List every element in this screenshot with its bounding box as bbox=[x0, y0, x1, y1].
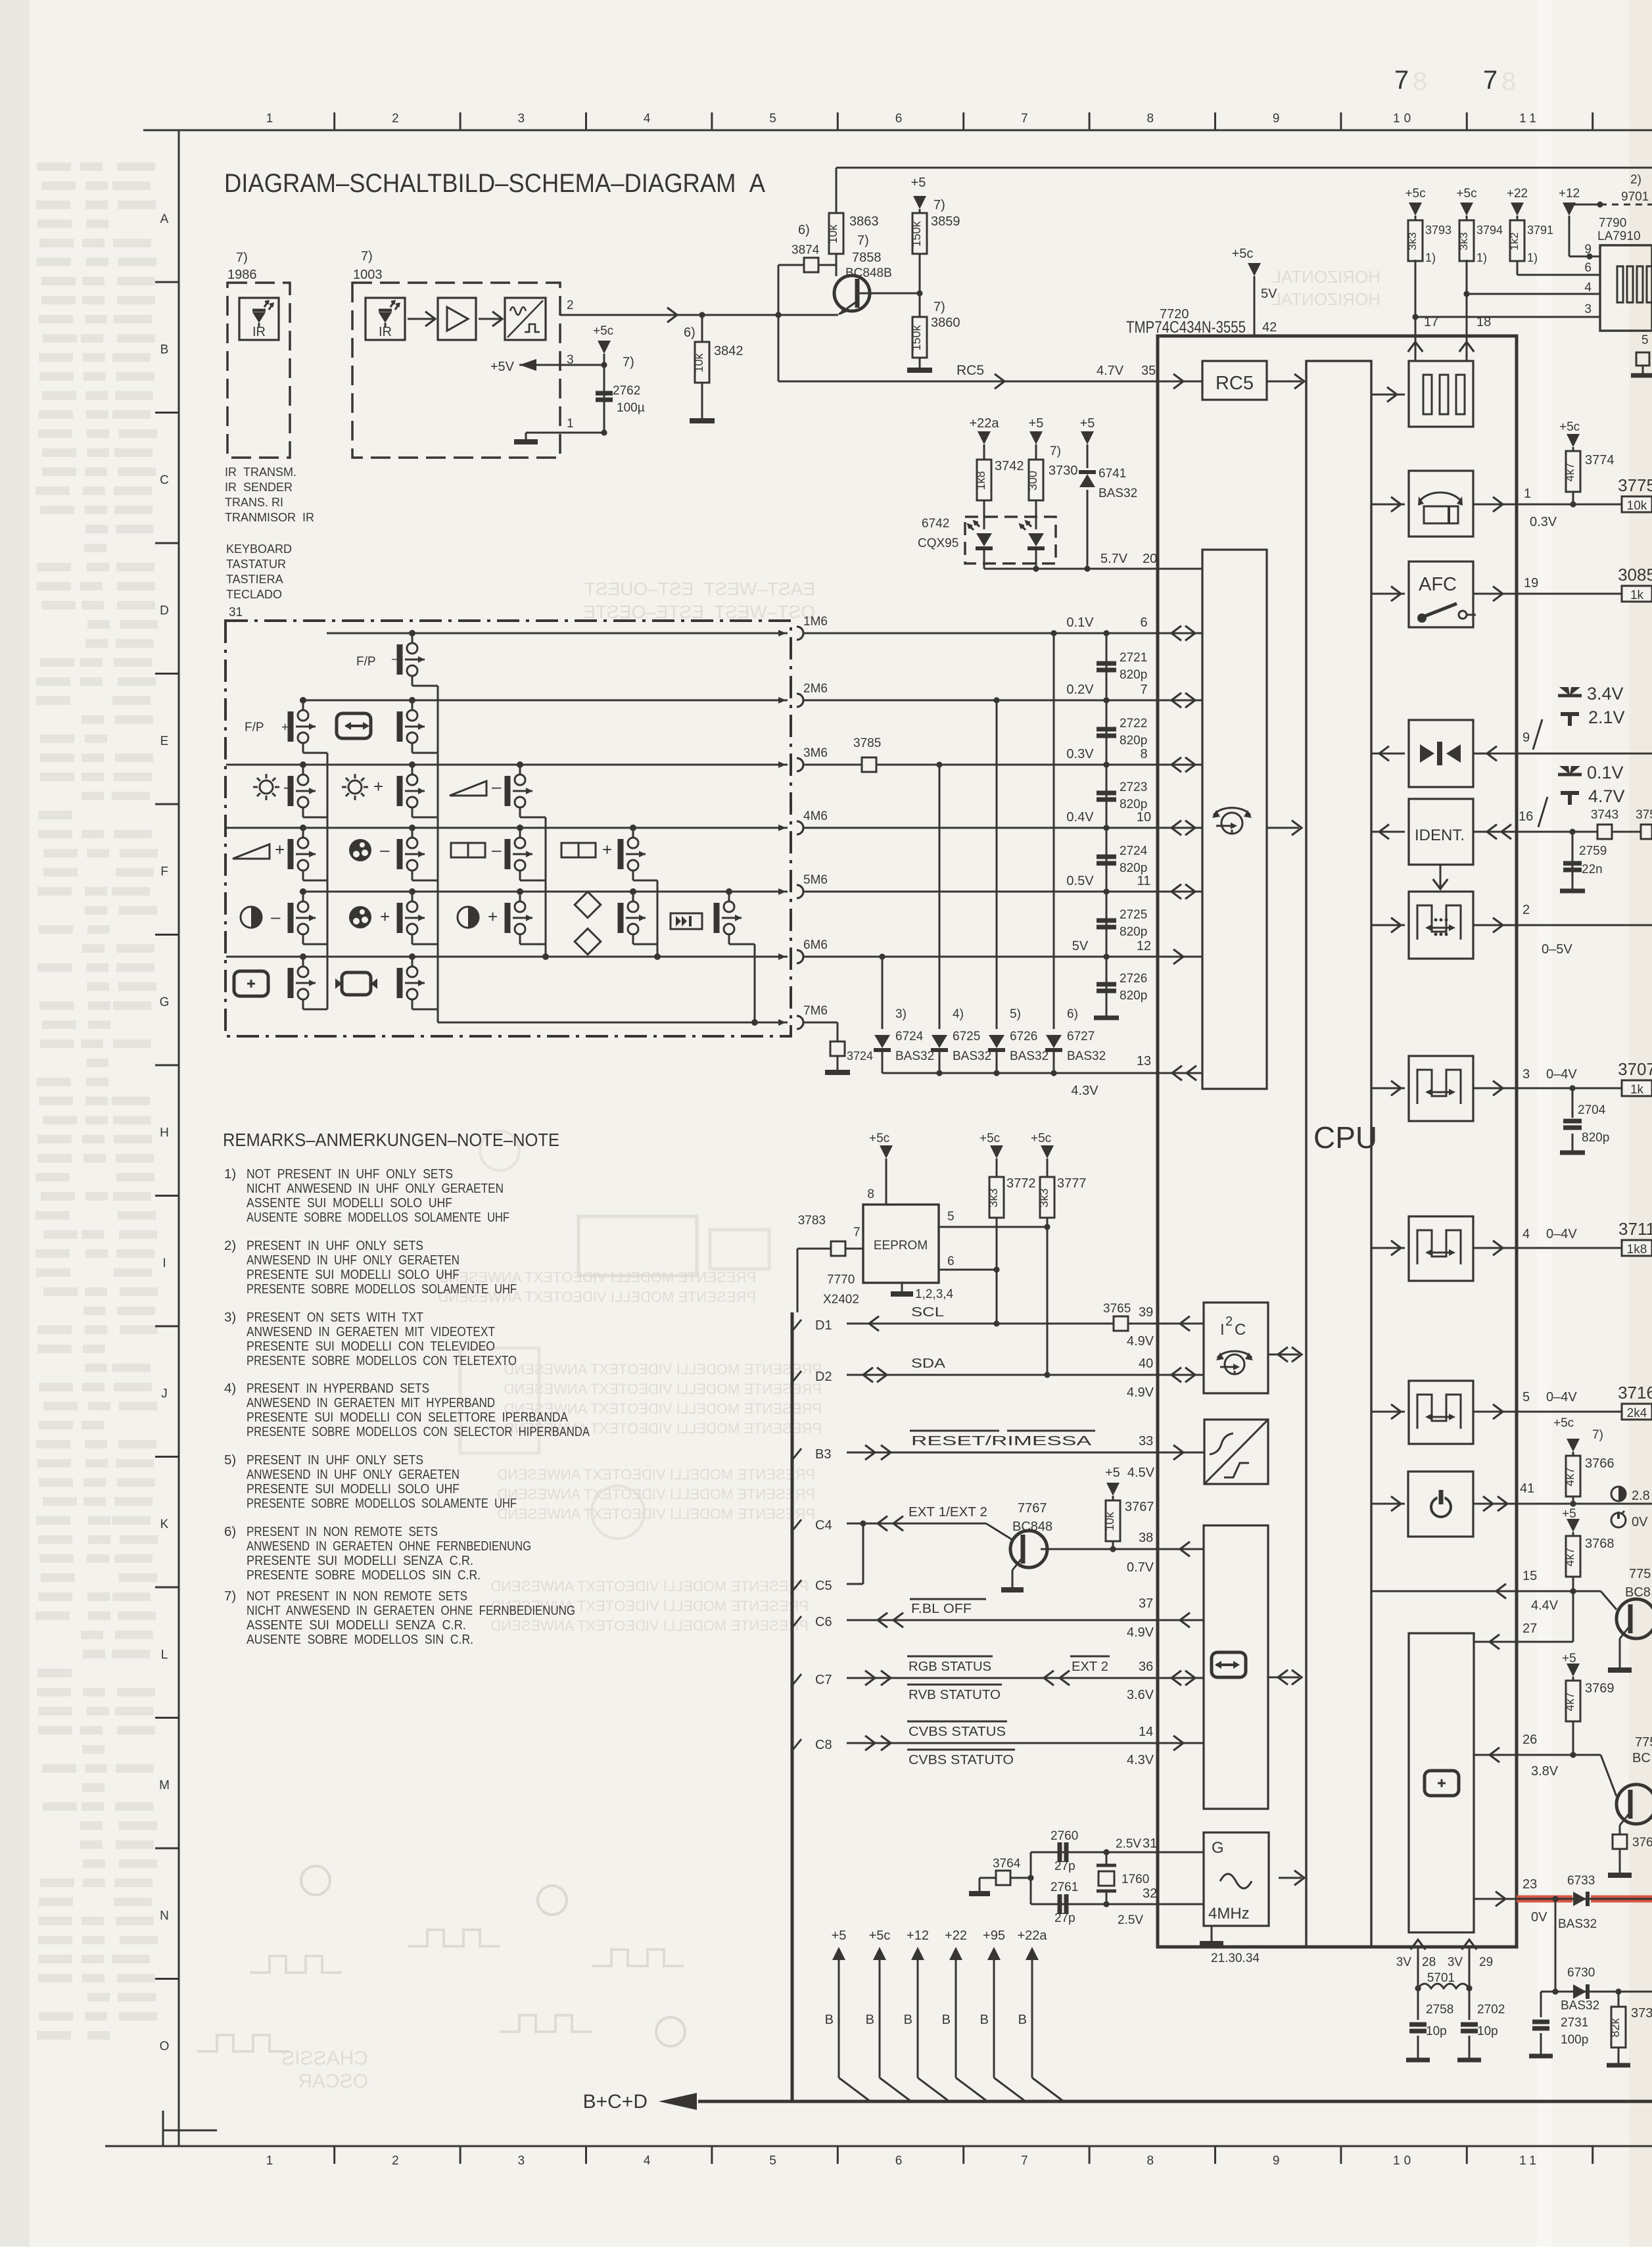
svg-text:2723: 2723 bbox=[1120, 780, 1147, 794]
svg-text:AUSENTE SOBRE MODELLOS SIN: AUSENTE SOBRE MODELLOS SIN C.R. bbox=[247, 1632, 473, 1647]
svg-text:3.8V: 3.8V bbox=[1531, 1764, 1559, 1779]
svg-text:3k3: 3k3 bbox=[1457, 232, 1470, 250]
svg-text:3: 3 bbox=[1522, 1067, 1530, 1082]
svg-text:PRESENTE MODELLI VIDEOTEXT: PRESENTE MODELLI VIDEOTEXT ANWESEND bbox=[490, 1578, 809, 1594]
svg-text:CVBS STATUTO: CVBS STATUTO bbox=[909, 1753, 1014, 1767]
svg-text:36: 36 bbox=[1139, 1660, 1153, 1674]
svg-text:32: 32 bbox=[1143, 1886, 1157, 1901]
svg-text:4.9V: 4.9V bbox=[1127, 1625, 1154, 1640]
svg-text:5: 5 bbox=[1522, 1390, 1530, 1404]
svg-text:C7: C7 bbox=[815, 1673, 832, 1687]
svg-text:4M6: 4M6 bbox=[803, 809, 828, 823]
svg-text:PRESENT IN HYPERBAND SETS: PRESENT IN HYPERBAND SETS bbox=[247, 1381, 429, 1396]
svg-text:3731: 3731 bbox=[1631, 2006, 1652, 2021]
svg-text:3.4V: 3.4V bbox=[1587, 684, 1624, 704]
svg-text:3774: 3774 bbox=[1585, 453, 1615, 467]
svg-text:820p: 820p bbox=[1120, 861, 1147, 875]
svg-text:14: 14 bbox=[1139, 1725, 1153, 1739]
svg-text:HORIZONTAL: HORIZONTAL bbox=[1271, 267, 1381, 287]
svg-text:10k: 10k bbox=[1103, 1511, 1116, 1531]
svg-text:3785: 3785 bbox=[853, 736, 881, 750]
svg-text:3M6: 3M6 bbox=[803, 746, 828, 760]
svg-text:B+C+D: B+C+D bbox=[583, 2091, 648, 2113]
svg-text:3764: 3764 bbox=[993, 1857, 1021, 1871]
svg-text:4.9V: 4.9V bbox=[1127, 1385, 1154, 1400]
svg-text:+22a: +22a bbox=[969, 416, 999, 431]
svg-text:7767: 7767 bbox=[1018, 1501, 1047, 1516]
svg-text:7770: 7770 bbox=[827, 1273, 855, 1287]
svg-text:+5c: +5c bbox=[1553, 1416, 1574, 1430]
svg-text:+5: +5 bbox=[1029, 416, 1044, 431]
svg-text:3766: 3766 bbox=[1585, 1456, 1615, 1471]
svg-text:0–4V: 0–4V bbox=[1546, 1067, 1577, 1082]
svg-text:2.5V: 2.5V bbox=[1116, 1837, 1141, 1851]
svg-text:5: 5 bbox=[1641, 333, 1649, 347]
svg-text:31: 31 bbox=[229, 606, 243, 619]
svg-text:7): 7) bbox=[623, 355, 634, 370]
svg-text:8: 8 bbox=[1413, 67, 1427, 96]
svg-text:15: 15 bbox=[1522, 1569, 1537, 1583]
svg-text:0.3V: 0.3V bbox=[1066, 747, 1094, 761]
svg-text:TASTATUR: TASTATUR bbox=[226, 558, 286, 571]
svg-text:31: 31 bbox=[1143, 1836, 1157, 1851]
svg-text:+5c: +5c bbox=[1456, 187, 1476, 201]
svg-text:1: 1 bbox=[1524, 487, 1531, 501]
svg-text:+5: +5 bbox=[1562, 1652, 1576, 1665]
svg-text:HORIZONTAL: HORIZONTAL bbox=[1271, 289, 1381, 309]
svg-text:IR: IR bbox=[379, 325, 392, 339]
svg-text:27: 27 bbox=[1522, 1621, 1537, 1636]
svg-text:IR SENDER: IR SENDER bbox=[225, 481, 293, 494]
svg-text:+5c: +5c bbox=[869, 1928, 891, 1943]
svg-text:TRANMISOR IR: TRANMISOR IR bbox=[225, 511, 314, 524]
svg-text:820p: 820p bbox=[1120, 734, 1147, 748]
svg-text:+95: +95 bbox=[983, 1928, 1005, 1943]
svg-text:NICHT ANWESEND IN UHF ONLY: NICHT ANWESEND IN UHF ONLY GERAETEN bbox=[247, 1181, 504, 1196]
svg-text:6): 6) bbox=[224, 1524, 236, 1539]
svg-text:150k: 150k bbox=[910, 220, 923, 247]
svg-text:300: 300 bbox=[1026, 471, 1039, 491]
svg-text:NOT PRESENT IN UHF ONLY S: NOT PRESENT IN UHF ONLY SETS bbox=[247, 1166, 453, 1182]
svg-text:RC5: RC5 bbox=[956, 363, 984, 378]
svg-text:4k7: 4k7 bbox=[1563, 462, 1576, 481]
svg-text:37: 37 bbox=[1139, 1596, 1153, 1611]
svg-text:2725: 2725 bbox=[1120, 908, 1147, 922]
svg-text:BAS32: BAS32 bbox=[1010, 1049, 1049, 1063]
svg-text:3769: 3769 bbox=[1585, 1681, 1615, 1696]
svg-text:0V: 0V bbox=[1632, 1515, 1648, 1529]
svg-text:SDA: SDA bbox=[911, 1356, 946, 1371]
svg-text:+5: +5 bbox=[911, 176, 926, 190]
svg-text:16: 16 bbox=[1519, 809, 1533, 824]
svg-text:11: 11 bbox=[1519, 112, 1540, 126]
svg-text:EXT 2: EXT 2 bbox=[1072, 1660, 1108, 1674]
svg-text:+5c: +5c bbox=[869, 1132, 889, 1145]
svg-text:2758: 2758 bbox=[1426, 2003, 1453, 2017]
svg-text:X2402: X2402 bbox=[823, 1293, 859, 1306]
svg-text:6: 6 bbox=[895, 112, 907, 126]
svg-text:3): 3) bbox=[895, 1007, 907, 1021]
svg-text:3777: 3777 bbox=[1057, 1176, 1087, 1191]
svg-text:33: 33 bbox=[1139, 1434, 1153, 1448]
svg-text:3793: 3793 bbox=[1425, 224, 1451, 237]
svg-text:3085: 3085 bbox=[1618, 565, 1652, 585]
svg-text:8: 8 bbox=[1147, 2154, 1158, 2168]
svg-text:82k: 82k bbox=[1609, 2017, 1622, 2037]
svg-text:F: F bbox=[160, 865, 168, 879]
svg-text:7858: 7858 bbox=[852, 251, 882, 265]
svg-text:5: 5 bbox=[947, 1210, 955, 1224]
svg-text:PRESENT IN UHF ONLY SETS: PRESENT IN UHF ONLY SETS bbox=[247, 1452, 423, 1468]
svg-text:3724: 3724 bbox=[847, 1049, 873, 1063]
svg-text:3716: 3716 bbox=[1618, 1383, 1652, 1402]
svg-text:ASSENTE SUI MODELLI SENZA: ASSENTE SUI MODELLI SENZA C.R. bbox=[247, 1617, 466, 1633]
svg-text:+5 4.5V: +5 4.5V bbox=[1105, 1466, 1155, 1480]
svg-text:PRESENTE MODELLI VIDEOTEXT: PRESENTE MODELLI VIDEOTEXT ANWESEND bbox=[490, 1617, 809, 1634]
svg-text:9: 9 bbox=[1273, 2154, 1284, 2168]
svg-text:–: – bbox=[392, 652, 399, 666]
svg-text:1M6: 1M6 bbox=[803, 615, 828, 629]
svg-text:F/P: F/P bbox=[356, 655, 376, 669]
svg-text:42: 42 bbox=[1262, 320, 1277, 335]
svg-text:3711: 3711 bbox=[1618, 1219, 1652, 1239]
svg-text:2.5V: 2.5V bbox=[1118, 1913, 1143, 1927]
svg-text:0.2V: 0.2V bbox=[1066, 682, 1094, 697]
svg-text:40: 40 bbox=[1139, 1356, 1153, 1371]
svg-text:3772: 3772 bbox=[1006, 1176, 1036, 1191]
svg-text:10: 10 bbox=[1393, 112, 1415, 126]
svg-text:1k2: 1k2 bbox=[1508, 232, 1521, 250]
svg-text:B: B bbox=[866, 2013, 874, 2027]
svg-text:6: 6 bbox=[1140, 615, 1147, 630]
svg-text:0.4V: 0.4V bbox=[1066, 810, 1094, 825]
svg-text:BAS32: BAS32 bbox=[1561, 1999, 1599, 2013]
svg-text:BAS32: BAS32 bbox=[1067, 1049, 1106, 1063]
svg-text:2): 2) bbox=[1630, 173, 1641, 187]
svg-text:0V: 0V bbox=[1531, 1910, 1547, 1925]
svg-text:PRESENTE SOBRE MODELLOS CON: PRESENTE SOBRE MODELLOS CON TELETEXTO bbox=[247, 1353, 517, 1368]
svg-text:TRANS. RI: TRANS. RI bbox=[225, 496, 283, 509]
svg-text:2M6: 2M6 bbox=[803, 682, 828, 696]
svg-text:6726: 6726 bbox=[1010, 1030, 1037, 1043]
svg-text:1): 1) bbox=[1527, 251, 1538, 264]
svg-text:ANWESEND IN UHF ONLY GERAE: ANWESEND IN UHF ONLY GERAETEN bbox=[247, 1253, 460, 1268]
svg-text:TECLADO: TECLADO bbox=[226, 588, 282, 601]
svg-text:ANWESEND IN GERAETEN MIT V: ANWESEND IN GERAETEN MIT VIDEOTEXT bbox=[247, 1324, 495, 1339]
svg-text:6): 6) bbox=[684, 325, 696, 340]
svg-text:PRESENTE MODELLI VIDEOTEXT: PRESENTE MODELLI VIDEOTEXT ANWESEND bbox=[497, 1506, 815, 1522]
svg-text:28: 28 bbox=[1422, 1955, 1436, 1969]
svg-text:4.4V: 4.4V bbox=[1531, 1598, 1559, 1613]
svg-text:PRESENTE MODELLI VIDEOTEXT: PRESENTE MODELLI VIDEOTEXT ANWESEND bbox=[504, 1381, 822, 1397]
svg-text:N: N bbox=[160, 1909, 169, 1923]
svg-text:13: 13 bbox=[1137, 1054, 1151, 1068]
svg-text:3768: 3768 bbox=[1585, 1537, 1615, 1551]
svg-text:3842: 3842 bbox=[714, 344, 743, 358]
svg-text:2: 2 bbox=[1225, 1314, 1233, 1329]
svg-text:1k8: 1k8 bbox=[1627, 1243, 1647, 1257]
svg-text:8: 8 bbox=[1140, 747, 1147, 761]
svg-text:PRESENTE MODELLI VIDEOTEXT: PRESENTE MODELLI VIDEOTEXT ANWESEND bbox=[504, 1361, 822, 1377]
svg-text:3783: 3783 bbox=[798, 1214, 826, 1228]
svg-text:REMARKS–ANMERKUNGEN–NOTE–NOTE: REMARKS–ANMERKUNGEN–NOTE–NOTE bbox=[223, 1130, 559, 1150]
svg-text:11: 11 bbox=[1137, 874, 1151, 888]
svg-text:10: 10 bbox=[1393, 2154, 1415, 2168]
svg-text:820p: 820p bbox=[1120, 925, 1147, 939]
svg-text:35: 35 bbox=[1141, 364, 1156, 378]
svg-text:1: 1 bbox=[266, 112, 277, 126]
svg-text:C8: C8 bbox=[815, 1738, 832, 1752]
svg-text:+22: +22 bbox=[945, 1928, 967, 1943]
svg-text:5: 5 bbox=[769, 2154, 780, 2168]
svg-text:I: I bbox=[162, 1257, 166, 1270]
svg-text:19: 19 bbox=[1524, 576, 1538, 590]
svg-text:7: 7 bbox=[1021, 2154, 1032, 2168]
svg-text:6733: 6733 bbox=[1567, 1874, 1595, 1888]
svg-text:0.3V: 0.3V bbox=[1530, 515, 1557, 529]
svg-text:PRESENTE SUI MODELLI SENZA: PRESENTE SUI MODELLI SENZA C.R. bbox=[247, 1553, 473, 1568]
svg-text:9: 9 bbox=[1584, 243, 1592, 256]
svg-text:PRESENT IN NON REMOTE SETS: PRESENT IN NON REMOTE SETS bbox=[247, 1524, 438, 1539]
svg-text:KEYBOARD: KEYBOARD bbox=[226, 542, 292, 556]
svg-text:M: M bbox=[159, 1779, 170, 1792]
svg-text:A: A bbox=[160, 212, 169, 226]
svg-text:7): 7) bbox=[361, 249, 373, 264]
svg-text:B: B bbox=[904, 2013, 912, 2027]
svg-text:G: G bbox=[160, 995, 170, 1009]
svg-text:EAST–WEST EST–OUEST: EAST–WEST EST–OUEST bbox=[584, 579, 815, 599]
svg-text:PRESENT IN UHF ONLY SETS: PRESENT IN UHF ONLY SETS bbox=[247, 1238, 423, 1253]
svg-text:+22a: +22a bbox=[1017, 1928, 1047, 1943]
svg-text:+5: +5 bbox=[1080, 416, 1095, 431]
svg-text:376: 376 bbox=[1632, 1836, 1652, 1850]
svg-text:+5c: +5c bbox=[1232, 247, 1254, 261]
svg-text:27p: 27p bbox=[1054, 1859, 1075, 1873]
svg-text:775: 775 bbox=[1629, 1567, 1651, 1581]
svg-text:2: 2 bbox=[392, 2154, 403, 2168]
svg-text:6): 6) bbox=[798, 223, 810, 237]
svg-text:+: + bbox=[275, 840, 285, 859]
svg-text:4: 4 bbox=[1584, 281, 1592, 295]
svg-text:10p: 10p bbox=[1477, 2024, 1498, 2038]
svg-text:B: B bbox=[942, 2013, 951, 2027]
svg-text:3: 3 bbox=[1584, 302, 1592, 316]
svg-text:4MHz: 4MHz bbox=[1208, 1905, 1250, 1923]
svg-text:4k7: 4k7 bbox=[1563, 1467, 1576, 1486]
svg-text:2724: 2724 bbox=[1120, 844, 1148, 858]
svg-text:PRESENTE SUI MODELLI CON T: PRESENTE SUI MODELLI CON TELEVIDEO bbox=[247, 1339, 495, 1354]
svg-text:5: 5 bbox=[769, 112, 780, 126]
svg-text:6724: 6724 bbox=[895, 1030, 924, 1043]
svg-text:9701: 9701 bbox=[1621, 190, 1649, 204]
svg-text:7: 7 bbox=[853, 1226, 861, 1239]
svg-text:+5: +5 bbox=[832, 1928, 847, 1943]
svg-text:B: B bbox=[1018, 2013, 1027, 2027]
svg-text:2k4: 2k4 bbox=[1627, 1406, 1647, 1420]
svg-text:3V: 3V bbox=[1396, 1955, 1412, 1969]
svg-text:RGB STATUS: RGB STATUS bbox=[909, 1660, 991, 1674]
svg-text:B: B bbox=[825, 2013, 834, 2027]
svg-text:2721: 2721 bbox=[1120, 651, 1147, 665]
svg-text:1760: 1760 bbox=[1121, 1873, 1149, 1886]
svg-text:3767: 3767 bbox=[1125, 1500, 1154, 1514]
svg-text:BC848B: BC848B bbox=[845, 266, 892, 280]
svg-text:10k: 10k bbox=[692, 352, 705, 372]
svg-text:ANWESEND IN GERAETEN OHNE: ANWESEND IN GERAETEN OHNE FERNBEDIENUNG bbox=[247, 1539, 531, 1554]
svg-text:9: 9 bbox=[1522, 730, 1530, 745]
svg-text:2.1V: 2.1V bbox=[1588, 707, 1625, 727]
svg-text:–: – bbox=[271, 907, 281, 926]
svg-text:NOT PRESENT IN NON REMOTE: NOT PRESENT IN NON REMOTE SETS bbox=[247, 1589, 467, 1604]
svg-text:3743: 3743 bbox=[1591, 808, 1618, 822]
svg-text:4.7V: 4.7V bbox=[1097, 364, 1124, 378]
svg-text:1k8: 1k8 bbox=[974, 471, 987, 490]
svg-text:PRESENTE SOBRE MODELLOS SOL: PRESENTE SOBRE MODELLOS SOLAMENTE UHF bbox=[247, 1281, 517, 1297]
svg-text:820p: 820p bbox=[1582, 1131, 1609, 1145]
svg-text:G: G bbox=[1212, 1839, 1224, 1857]
svg-text:4): 4) bbox=[953, 1007, 964, 1021]
svg-text:4k7: 4k7 bbox=[1563, 1692, 1576, 1711]
svg-text:3874: 3874 bbox=[791, 243, 820, 257]
svg-text:3742: 3742 bbox=[995, 459, 1024, 473]
svg-text:+: + bbox=[602, 840, 612, 859]
svg-text:12: 12 bbox=[1137, 939, 1151, 953]
svg-text:CHASSIS: CHASSIS bbox=[281, 2047, 368, 2069]
svg-text:20: 20 bbox=[1143, 552, 1157, 566]
svg-text:2759: 2759 bbox=[1579, 844, 1607, 858]
svg-text:+: + bbox=[488, 907, 498, 926]
svg-text:O: O bbox=[160, 2040, 170, 2053]
svg-text:3k3: 3k3 bbox=[987, 1188, 1000, 1207]
svg-text:10k: 10k bbox=[826, 224, 839, 243]
svg-text:4.3V: 4.3V bbox=[1071, 1084, 1098, 1098]
svg-text:BAS32: BAS32 bbox=[895, 1049, 934, 1063]
svg-text:IDENT.: IDENT. bbox=[1415, 826, 1465, 844]
svg-text:775: 775 bbox=[1635, 1735, 1652, 1750]
svg-text:38: 38 bbox=[1139, 1531, 1153, 1545]
svg-text:0.5V: 0.5V bbox=[1066, 874, 1094, 888]
svg-text:J: J bbox=[161, 1387, 168, 1401]
svg-text:+5c: +5c bbox=[593, 324, 613, 338]
svg-text:3765: 3765 bbox=[1103, 1302, 1131, 1316]
svg-text:3: 3 bbox=[518, 2154, 529, 2168]
svg-text:23: 23 bbox=[1522, 1877, 1537, 1892]
svg-text:3730: 3730 bbox=[1049, 464, 1078, 478]
svg-text:4: 4 bbox=[644, 112, 655, 126]
svg-text:3859: 3859 bbox=[931, 214, 960, 229]
svg-text:+12: +12 bbox=[1559, 187, 1580, 201]
svg-text:C4: C4 bbox=[815, 1518, 832, 1533]
svg-text:+5: +5 bbox=[1562, 1507, 1576, 1521]
svg-text:1): 1) bbox=[1476, 251, 1487, 264]
svg-text:10p: 10p bbox=[1426, 2024, 1447, 2038]
svg-text:0–4V: 0–4V bbox=[1546, 1390, 1577, 1404]
svg-text:3): 3) bbox=[224, 1310, 236, 1325]
svg-text:AUSENTE SOBRE MODELLOS SOLA: AUSENTE SOBRE MODELLOS SOLAMENTE UHF bbox=[247, 1210, 509, 1225]
svg-text:+: + bbox=[373, 777, 383, 796]
svg-text:3794: 3794 bbox=[1476, 224, 1503, 237]
svg-text:0.1V: 0.1V bbox=[1587, 763, 1624, 782]
svg-text:100p: 100p bbox=[1561, 2033, 1588, 2047]
svg-text:2731: 2731 bbox=[1561, 2016, 1588, 2030]
svg-text:6742: 6742 bbox=[922, 517, 949, 531]
svg-text:EEPROM: EEPROM bbox=[874, 1239, 928, 1253]
svg-text:2: 2 bbox=[392, 112, 403, 126]
svg-text:ASSENTE SUI MODELLI SOLO U: ASSENTE SUI MODELLI SOLO UHF bbox=[247, 1195, 452, 1210]
svg-text:–: – bbox=[492, 840, 502, 859]
svg-text:9: 9 bbox=[1273, 112, 1284, 126]
svg-text:+5c: +5c bbox=[1031, 1132, 1051, 1145]
svg-text:PRESENTE MODELLI VIDEOTEXT: PRESENTE MODELLI VIDEOTEXT ANWESEND bbox=[497, 1486, 815, 1502]
svg-text:6725: 6725 bbox=[953, 1030, 980, 1043]
svg-text:+: + bbox=[281, 721, 289, 734]
svg-text:2722: 2722 bbox=[1120, 717, 1147, 730]
svg-text:3860: 3860 bbox=[931, 316, 960, 330]
svg-text:+5V: +5V bbox=[490, 360, 515, 374]
svg-text:PRESENTE SOBRE MODELLOS CON: PRESENTE SOBRE MODELLOS CON SELECTOR HIP… bbox=[247, 1424, 590, 1439]
svg-text:1: 1 bbox=[567, 417, 574, 431]
svg-text:B: B bbox=[160, 343, 169, 357]
svg-text:D1: D1 bbox=[815, 1318, 832, 1333]
svg-text:2: 2 bbox=[567, 299, 574, 312]
svg-text:3791: 3791 bbox=[1527, 224, 1553, 237]
svg-text:PRESENTE SUI MODELLI SOLO: PRESENTE SUI MODELLI SOLO UHF bbox=[247, 1267, 460, 1282]
svg-text:820p: 820p bbox=[1120, 989, 1147, 1003]
svg-text:0–5V: 0–5V bbox=[1542, 942, 1572, 957]
svg-text:5M6: 5M6 bbox=[803, 873, 828, 887]
svg-text:8: 8 bbox=[867, 1187, 874, 1201]
svg-text:F.BL OFF: F.BL OFF bbox=[911, 1602, 972, 1616]
svg-text:OSCAR: OSCAR bbox=[298, 2070, 368, 2092]
svg-text:C6: C6 bbox=[815, 1615, 832, 1629]
svg-text:IR TRANSM.: IR TRANSM. bbox=[225, 466, 296, 479]
svg-text:CVBS STATUS: CVBS STATUS bbox=[909, 1725, 1006, 1739]
svg-text:OST–WEST ESTE–OESTE: OST–WEST ESTE–OESTE bbox=[583, 602, 815, 622]
svg-text:BAS32: BAS32 bbox=[1098, 487, 1137, 500]
svg-text:7): 7) bbox=[933, 198, 945, 212]
svg-text:3863: 3863 bbox=[849, 214, 879, 229]
svg-text:C: C bbox=[160, 473, 169, 487]
svg-text:D2: D2 bbox=[815, 1370, 832, 1384]
svg-text:2702: 2702 bbox=[1477, 2003, 1505, 2017]
svg-text:CPU: CPU bbox=[1313, 1120, 1377, 1155]
svg-text:TASTIERA: TASTIERA bbox=[226, 573, 283, 586]
svg-text:I: I bbox=[1220, 1321, 1225, 1339]
svg-text:6): 6) bbox=[1067, 1007, 1078, 1021]
svg-text:C: C bbox=[1235, 1321, 1246, 1339]
svg-text:1k: 1k bbox=[1630, 588, 1644, 602]
svg-text:10k: 10k bbox=[1627, 499, 1647, 513]
svg-text:10: 10 bbox=[1137, 810, 1151, 825]
svg-text:6727: 6727 bbox=[1067, 1030, 1095, 1043]
svg-text:1): 1) bbox=[224, 1166, 236, 1182]
svg-text:39: 39 bbox=[1139, 1305, 1153, 1320]
svg-text:B3: B3 bbox=[815, 1447, 831, 1462]
svg-text:F/P: F/P bbox=[245, 721, 264, 734]
svg-text:+: + bbox=[380, 907, 390, 926]
svg-text:41: 41 bbox=[1520, 1481, 1534, 1496]
svg-text:2760: 2760 bbox=[1050, 1829, 1078, 1843]
svg-text:7: 7 bbox=[1021, 112, 1032, 126]
svg-text:–: – bbox=[284, 777, 294, 796]
svg-text:2.8: 2.8 bbox=[1632, 1489, 1650, 1503]
svg-text:375: 375 bbox=[1636, 808, 1652, 822]
svg-text:+5c: +5c bbox=[979, 1132, 1000, 1145]
svg-text:ANWESEND IN UHF ONLY GERAE: ANWESEND IN UHF ONLY GERAETEN bbox=[247, 1467, 460, 1482]
svg-text:2: 2 bbox=[1522, 903, 1530, 917]
svg-text:8: 8 bbox=[1501, 67, 1516, 96]
svg-text:7): 7) bbox=[933, 300, 945, 314]
